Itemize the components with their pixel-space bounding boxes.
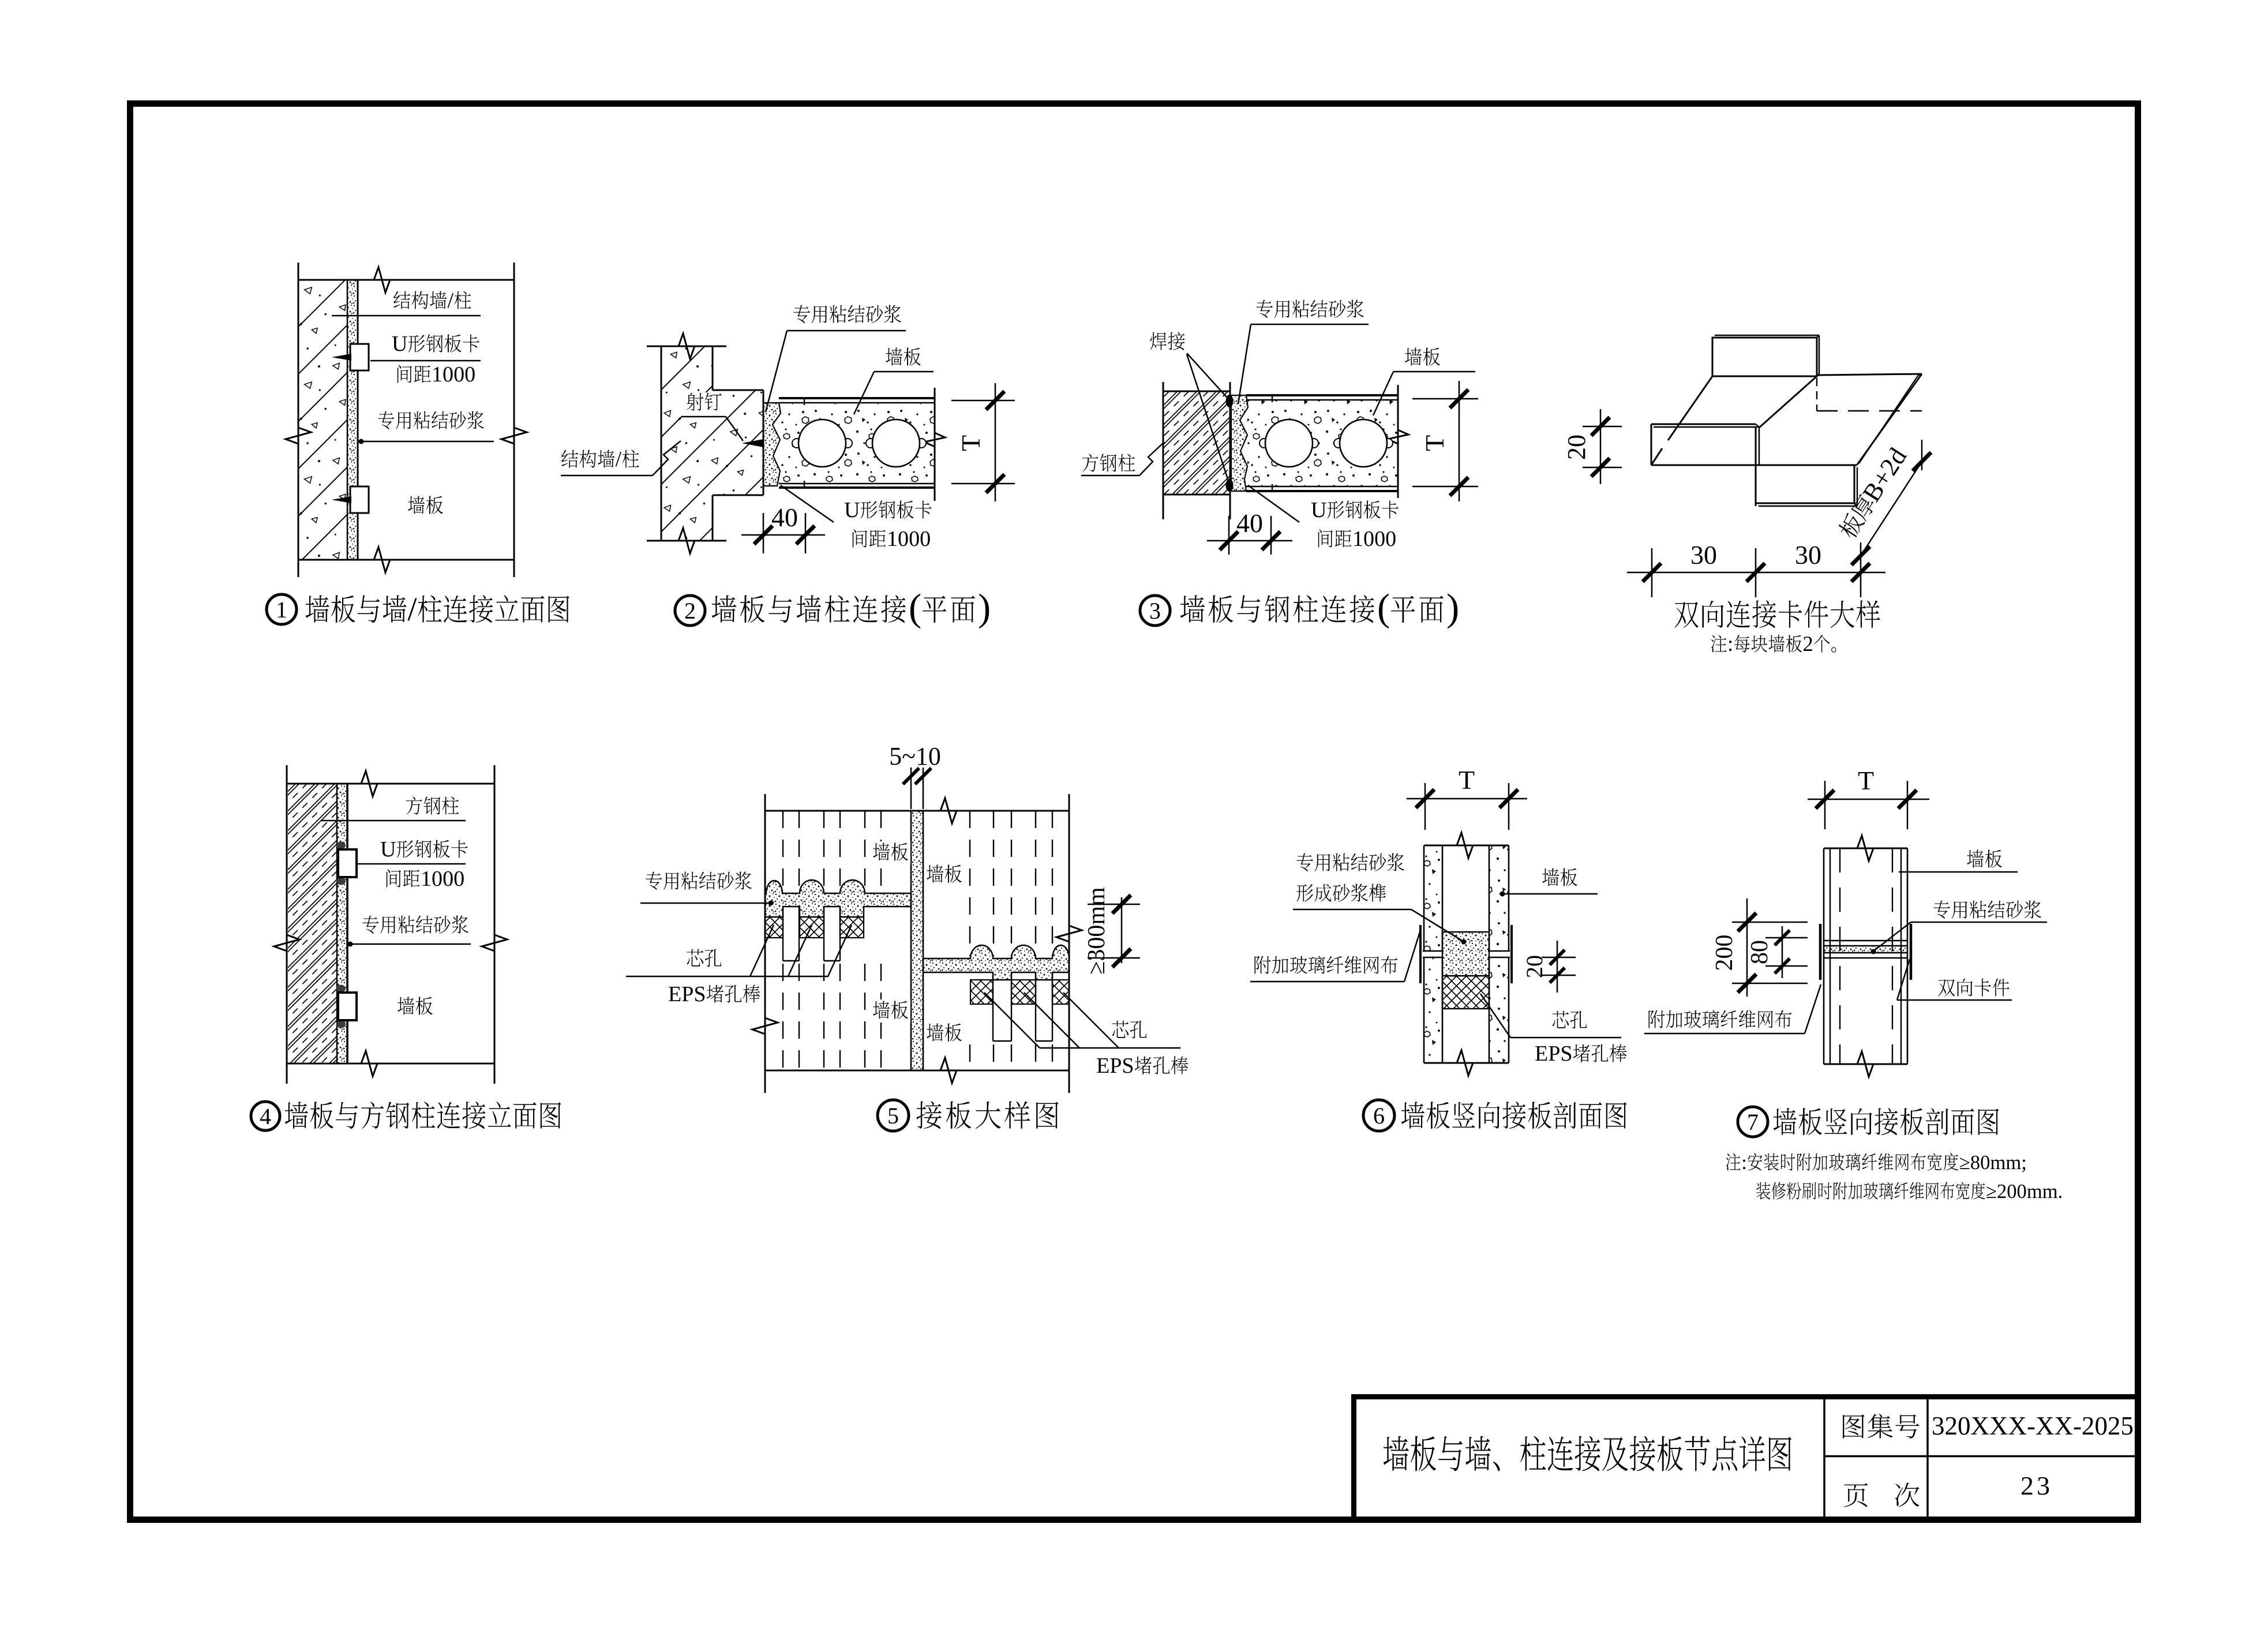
svg-text:40: 40 <box>1236 508 1263 538</box>
svg-text:7: 7 <box>1747 1109 1759 1135</box>
svg-text:T: T <box>956 435 985 451</box>
svg-text:2: 2 <box>684 598 696 624</box>
svg-text:3: 3 <box>1149 598 1161 624</box>
svg-text:T: T <box>1459 765 1475 795</box>
svg-text:30: 30 <box>1690 540 1717 570</box>
svg-text:(: ( <box>909 587 921 629</box>
svg-text:1000: 1000 <box>432 362 475 387</box>
svg-text:T: T <box>1420 435 1449 451</box>
svg-text:≥300mm: ≥300mm <box>1084 887 1110 975</box>
svg-text:EPS: EPS <box>668 982 706 1006</box>
svg-text:80: 80 <box>1746 940 1773 964</box>
svg-text::: : <box>1727 632 1733 656</box>
svg-text:U: U <box>392 332 408 356</box>
svg-text:U: U <box>1311 498 1327 522</box>
svg-text:20: 20 <box>1562 435 1591 460</box>
svg-text:): ) <box>978 587 991 629</box>
svg-text:5: 5 <box>887 1103 899 1129</box>
svg-text:1000: 1000 <box>421 867 464 891</box>
svg-text::: : <box>1741 1152 1747 1174</box>
svg-text:200: 200 <box>1711 935 1738 971</box>
svg-text:U: U <box>844 498 860 522</box>
svg-text:U: U <box>380 837 396 862</box>
svg-text:EPS: EPS <box>1535 1042 1573 1066</box>
svg-text:320XXX-XX-2025: 320XXX-XX-2025 <box>1932 1411 2134 1440</box>
svg-text:23: 23 <box>2020 1471 2053 1500</box>
svg-text:EPS: EPS <box>1096 1054 1134 1078</box>
svg-text:5~10: 5~10 <box>889 742 941 770</box>
svg-text:1000: 1000 <box>887 527 931 551</box>
svg-text:1: 1 <box>276 597 287 623</box>
svg-text:(: ( <box>1377 587 1390 629</box>
svg-text:40: 40 <box>771 503 798 532</box>
svg-text:/: / <box>407 590 417 628</box>
svg-text:2: 2 <box>1802 632 1813 656</box>
svg-text:6: 6 <box>1373 1103 1385 1129</box>
svg-text:≥80mm;: ≥80mm; <box>1959 1152 2027 1174</box>
svg-text:/: / <box>448 289 454 313</box>
svg-text:): ) <box>1446 587 1459 629</box>
svg-text:1000: 1000 <box>1352 527 1396 551</box>
svg-text:T: T <box>1858 766 1874 795</box>
svg-text:/: / <box>616 447 622 471</box>
svg-text:≥200mm.: ≥200mm. <box>1986 1181 2063 1203</box>
svg-text:30: 30 <box>1795 540 1821 570</box>
svg-text:20: 20 <box>1521 955 1547 978</box>
svg-text:4: 4 <box>260 1103 271 1129</box>
